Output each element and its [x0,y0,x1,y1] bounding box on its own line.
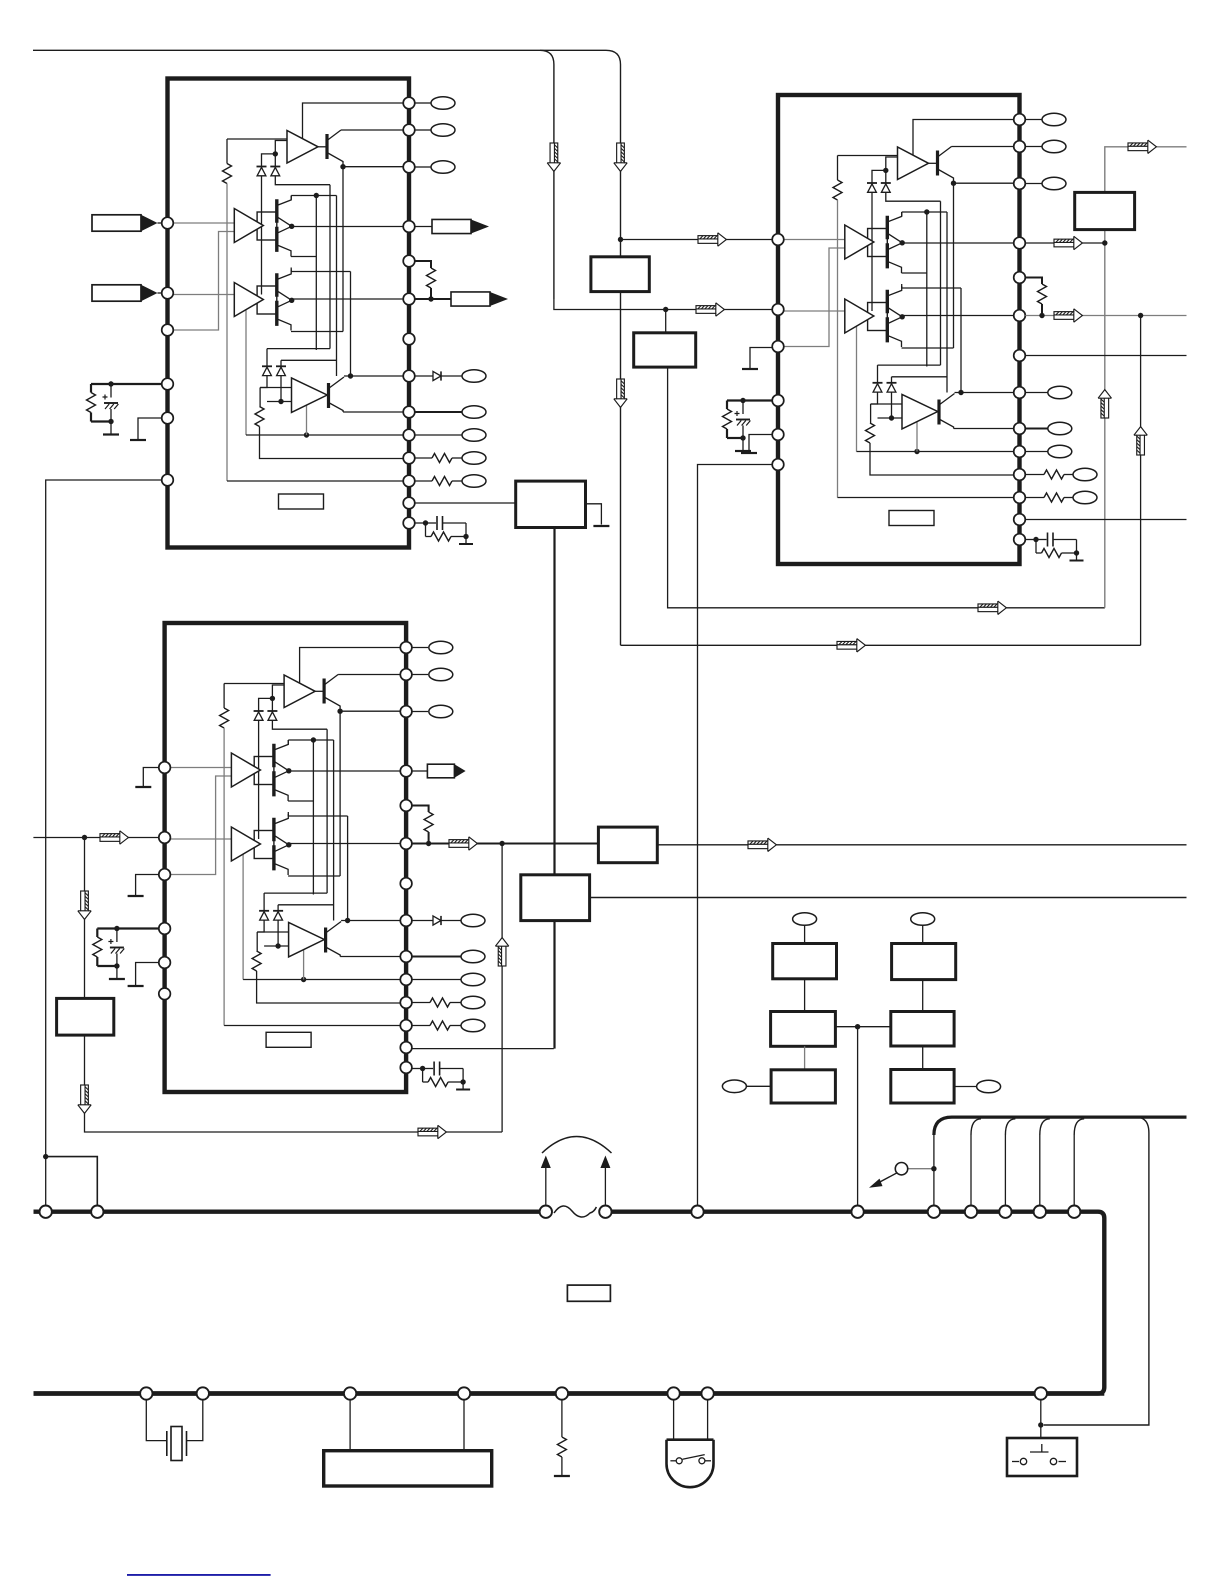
pin U3 R3 [400,706,412,718]
input flag U1 L2 [92,285,158,301]
terminal lug U3 R8 [461,914,485,927]
wire: D2 cathode to bus v3 [886,193,941,202]
wire: amp c lower input [845,321,857,323]
wire: mesh vertical v6 [960,288,962,393]
bus entry hook at 1074.2 [1074,1119,1084,1135]
transistor QU3A [315,675,340,712]
junction block group centre [855,1024,860,1029]
wire: long vertical to pin12 line [226,184,228,482]
pin U3 R11 [400,997,412,1009]
wire: crystal right lead [187,1400,203,1441]
transistor QU1A [318,130,343,167]
wire: W1 corner to U2 L2 [554,299,772,310]
wire: U1 R13 to block [415,502,516,504]
ground at U2 L5 [741,452,757,454]
wire: D3 anode riser [266,349,268,367]
bus node hook b [965,1206,977,1218]
floating label box [567,1285,610,1301]
junction QA emitter [340,164,345,169]
wire: U3 R1 to lug [412,647,428,649]
wire: mesh horizontal h4 [902,347,954,349]
pin U1 R13 [403,497,415,509]
signal arrow down to B11 [78,891,91,919]
block G-right-top [892,944,956,980]
RC network at U2 R14 [1026,533,1084,561]
signal arrow top right [1128,140,1156,153]
resistor at U1 R11 [432,454,452,463]
op-amp U2C [845,299,874,333]
wire: U1 R9 to lug [415,411,462,413]
wire: B11 bottom run [85,1035,503,1132]
wire: D1 cathode drop [871,193,873,312]
signal arrow up on gray riser [1098,390,1111,418]
RC cluster at U1 L4 [87,381,162,434]
pin U1 R4 [403,221,415,233]
op-amp U2A [898,147,929,180]
wire: W2 below B1 [620,292,622,646]
pin U1 R8 [403,370,415,382]
resistor at U1 R5 [427,268,436,288]
wire: QA emitter to pin3 [340,710,400,712]
pin U3 R6 [400,838,412,850]
wire: D2 cathode to bus v3 [272,721,327,730]
terminal lug U2 R12 [1073,491,1097,504]
wire: pin1 to amp U3a input top [300,648,401,684]
wire: pin10 line [246,434,403,436]
junction amp d lower input [278,399,283,404]
wire: mesh horizontal h3 [288,815,347,817]
pin U3 R8 [400,915,412,927]
wire: pin10 line [857,451,1014,453]
pin U3 L1 [159,762,171,774]
wire: pin10 line [243,979,400,981]
terminal lug U2 R1 [1042,113,1066,126]
wire: amp d lower input [264,945,289,947]
IC U2 package border [778,95,1020,564]
resistor RU12 (internal) [255,407,264,427]
pin U3 L3 [159,869,171,881]
wire: stage c output to pin6 [292,298,404,300]
op-amp U2B [845,225,874,259]
wire: pin L1 to amp b [173,222,234,224]
RC network at U3 R14 [412,1062,470,1090]
wire: lever to drop line [908,1168,934,1170]
wire: U1 R1 to lug [415,102,431,104]
wire: G-right-bot to lug [954,1086,977,1088]
signal arrow on W2 bottom run [837,639,865,652]
wire: pin L3 riser to amp b [784,248,845,347]
bottom bus [34,1391,1105,1395]
wire: input line to U3 L2 [33,837,158,839]
part number box U3 [266,1032,311,1047]
wire: Lm to Lb [804,1046,806,1070]
wire: clamp diode D2 riser to amp input [275,141,287,167]
wire: Rm to Rb [922,1046,924,1070]
pin U2 R6 [1014,310,1026,322]
wire: long vertical to pin12 line [223,728,225,1026]
junction stage U2c output [900,314,905,319]
terminal lug U1 R1 [431,97,455,110]
transistor pair U2b [887,212,902,273]
wire: U2 R5 elbow [1025,278,1042,285]
RC network at U1 R14 [415,516,473,544]
terminal lug U2 R2 [1042,140,1066,153]
output stage U2b bracket [868,229,888,257]
wire: B6 output long line [657,844,1186,846]
block B4 [521,875,590,921]
wire: bus to dome right [707,1400,709,1440]
wire: QD emitter to pin9 [954,428,1014,430]
junction lever tap [931,1166,936,1171]
pin U1 R2 [403,124,415,136]
lug right of block G-right-bot [977,1080,1001,1093]
transistor QU2A [929,147,954,184]
wire: drop to bus at 1005.4 [1004,1135,1006,1206]
bus node dome right [701,1387,713,1399]
pin U3 R5 [400,800,412,812]
resistor at U2 R12 [1044,493,1064,502]
junction amp d lower input [889,415,894,420]
resistor at U3 R12 [430,1021,450,1030]
wire: lug to G-left-bot [746,1085,771,1087]
resistor at U3 R5 [424,812,433,832]
wire: QD emitter to pin9 [340,956,400,958]
wire: to internal resistor 2 [259,388,261,407]
pin U2 L1 [772,234,784,246]
wire: mesh vertical v4 [946,212,948,393]
transistor pair U1c [277,270,292,331]
wire: U2 R6 long line [1025,315,1186,317]
wire: amp d upper input [257,931,288,933]
terminal lug U1 R10 [462,429,486,442]
wire: U1 R5 elbow [415,261,431,268]
terminal lug U3 R1 [429,641,453,654]
wire: amp U1a feedback resistor line [227,138,287,140]
IC U2 internals [772,95,1025,564]
ground at U2 L3 [742,368,758,370]
wire: drop to bus at 1039.8 [1039,1135,1041,1206]
ground at U1 L5 [130,439,146,441]
block B11 [57,998,114,1035]
wire: jumper arrow stem left [545,1165,547,1205]
junction U3 R6 [426,841,431,846]
wire: mesh vertical v6 [350,272,352,377]
bus node crystal right [197,1387,209,1399]
bus node crystal left [140,1387,152,1399]
wire: riser to U3 R6 line [501,844,503,1133]
wire: U3 R2 to lug [412,674,428,676]
wire: D4 top link [281,359,337,361]
pin U1 R6 [403,293,415,305]
wire: QD collector to pin8 [955,392,1014,394]
wire: U3 R9 to lug [412,956,461,958]
pin U1 R10 [403,429,415,441]
wire: D3 top link [267,348,330,350]
pin U2 R9 [1014,423,1026,435]
wire: clamp diode D2 riser to amp input [886,157,898,183]
output flag U1 R6 [451,292,508,306]
wire: D2 cathode to bus v3 [275,176,330,185]
diode DU13 [262,366,272,375]
wire: amp c lower input [231,849,243,851]
wire: D3 cathode [257,920,264,932]
pin U1 L2 [162,287,174,299]
junction amp d lower input [275,943,280,948]
pin U3 R4 [400,765,412,777]
transistor pair U3b [274,740,289,801]
wire: D4 anode riser [891,377,893,383]
part number box U1 [279,494,324,509]
bus node from U1 L6 [40,1206,52,1218]
pin U2 R3 [1014,178,1026,190]
signal arrow on bottom run [418,1125,446,1138]
pin U2 L4 [772,395,784,407]
wire: pin1 to amp U1a input top [303,103,404,139]
terminal lug U3 R11 [461,996,485,1009]
jumper wavy link [554,1206,596,1217]
bus node hook a [928,1206,940,1218]
signal arrow on B2 bottom run [978,601,1006,614]
wire: stage b output to pin4 [292,226,404,228]
pin U1 L6 [162,474,174,486]
wire: drop to bus at 971 [970,1135,972,1206]
wire: U3 R11 [412,1002,430,1004]
wire W2 from top rail [606,50,621,256]
wire: amp d lower input [267,401,292,403]
IC U3 package border [165,623,407,1092]
wire: gray riser to top right [1105,147,1187,608]
terminal lug U3 R12 [461,1019,485,1032]
pin U3 R14 [400,1062,412,1074]
wire: stage b output to pin4 [902,242,1014,244]
wire: U1 R10 to lug [415,434,462,436]
wire: U2 R12 [1025,497,1044,499]
wire: mesh vertical v3 [329,185,331,349]
transistor QU1D [327,377,344,412]
wire: U2 L5 to ground [749,435,772,454]
ground at B5 [593,525,609,527]
wire: pin12 line [224,1025,400,1027]
terminal lug U1 R8 [462,370,486,383]
dome switch contacts [670,1455,711,1464]
pin U1 L5 [162,412,174,424]
signal arrow down on W2 lower [614,379,627,407]
junction QD collector [345,918,350,923]
wire: U3 R5 elbow [412,806,429,813]
bus node push switch [1035,1387,1047,1399]
ground pulldown [554,1475,570,1477]
wire: QA emitter to pin3 [954,182,1014,184]
pin U1 L1 [162,217,174,229]
block G-right-bot [891,1070,954,1104]
wire: lug to block Lt [804,925,806,943]
diode at U1 R8 [433,371,441,380]
diode DU14 [276,366,286,375]
terminal lug U2 R9 [1048,422,1072,435]
pin U3 L6 [159,988,171,1000]
wire: mesh vertical v2 [245,306,247,436]
bus node B9 right [458,1387,470,1399]
wire: resistor to R6 line [428,832,430,844]
wire: QA emitter to pin3 [343,166,403,168]
wire: U1 R8 to diode [415,375,433,377]
pin U2 R2 [1014,141,1026,153]
wire: mesh vertical v5 [953,183,955,348]
junction stage U2b output [900,240,905,245]
wire: amp U3a feedback resistor line [224,683,284,685]
block B9 [324,1451,492,1486]
wire: U3 R4 to flag [412,770,428,772]
junction R4 on gray riser [1102,240,1107,245]
bus node pulldown [556,1387,568,1399]
junction QA emitter [337,709,342,714]
wire: U2 R8 to lug [1025,392,1048,394]
wire: bus to dome left [673,1400,675,1440]
IC U1 package border [168,79,410,548]
push switch contacts [1012,1444,1066,1465]
junction pin10 line [304,432,309,437]
output stage U2c bracket [868,303,888,331]
pin U2 R5 [1014,272,1026,284]
junction parallel branch [43,1154,48,1159]
wire: QA collector to pin2 [341,129,403,131]
block G-left-bot [771,1070,835,1103]
diode DU33 [259,911,269,920]
wire: bus to B9 right [463,1400,465,1451]
wire: clamp diode D1 riser [872,170,886,183]
wire: U3 R3 to lug [412,711,428,713]
pin U1 R7 [403,333,415,345]
lever circle [895,1163,907,1175]
wire: B2 bottom run [668,367,1105,608]
pin U2 R11 [1014,469,1026,481]
junction stage U1b output [289,224,294,229]
wire: D4 top link [892,376,948,378]
block G-left-top [773,944,837,979]
transistor QU2D [938,394,955,429]
ground at U3 L3 [128,895,144,897]
wire: mesh vertical v3 [326,729,328,893]
diode DU22 [881,183,891,192]
wire: resistor to ground [561,1457,563,1476]
wire: B4 output long line [590,897,1187,899]
signal arrow to U2 L1 [698,233,726,246]
op-amp U1D [292,378,328,412]
main bus upper [34,1212,1105,1394]
wire: D3 anode riser [263,893,265,911]
wire: pin12 line [227,480,403,482]
wire: pin L2 to amp c [170,838,231,840]
junction pin10 line [301,977,306,982]
wire: amp d lower input [878,417,903,419]
wire: U3 R6 to block B6 [412,843,599,845]
op-amp U3B [231,753,260,787]
wire: L2 tap down to B11 [84,838,86,999]
resistor RU21 (internal) [833,180,842,200]
lever arm with arrowhead [877,1173,897,1184]
block B3 [1075,192,1135,229]
wire: mesh vertical v2 [856,322,858,452]
bus terminal right of jumper [599,1206,611,1218]
wire: W2 bottom run [621,644,1141,646]
wire: resistor top lead [837,156,839,181]
pin U2 R13 [1014,514,1026,526]
terminal lug U2 R8 [1048,386,1072,399]
transistor pair U3c [274,814,289,875]
wire: mesh horizontal h4 [288,875,340,877]
wire: U3 R13 from B4 drop [412,1048,554,1050]
wire: amp c lower input [234,305,246,307]
terminal lug U1 R9 [462,406,486,419]
pin U2 L6 [772,459,784,471]
wire: bus to pulldown resistor [561,1400,563,1438]
bus node hook e [1068,1206,1080,1218]
remote sensor dome S1 [667,1440,714,1488]
wire: crystal left lead [146,1400,167,1441]
diode at U3 R8 [433,916,441,925]
bus node hook c [999,1206,1011,1218]
wire: amp b source line [288,800,313,802]
diode DU31 [254,711,264,720]
wire: U2 L6 long drop to bus [698,465,773,1206]
pin U2 L2 [772,304,784,316]
wire: Lm to Rm link [835,1026,890,1028]
wire: block group drop to bus [857,1027,859,1206]
signal arrow to U2 L2 [696,303,724,316]
output stage U3b bracket [254,757,274,785]
op-amp U1C [234,283,263,317]
wire: mesh vertical v3 [940,201,942,365]
wire: stage c output to pin6 [289,843,401,845]
wire: U1 L5 to ground [138,418,162,440]
junction stage U3b output [286,768,291,773]
wire: B5 down to B4 [553,528,555,875]
wire: to internal resistor 2 [256,932,258,951]
lug above block group left [793,913,817,926]
wire: stub above pin10 junction [306,406,308,436]
junction stage U3c output [286,842,291,847]
wire: B5 to ground [586,504,602,525]
mini bus collector [934,1117,1187,1135]
RC cluster at U2 L4 [723,398,773,451]
terminal lug U2 R3 [1042,177,1066,190]
output stage U1c bracket [257,286,277,314]
pin U1 L3 [162,324,174,336]
junction stage U1c output [289,298,294,303]
resistor at U3 R11 [430,998,450,1007]
input flag U1 L1 [92,215,158,231]
transistor pair U1b [277,196,292,257]
wire: pin L1 to amp b [170,767,231,769]
diode DU32 [267,711,277,720]
op-amp U3C [231,827,260,861]
wire: U1 R3 to lug [415,166,431,168]
pin U2 R8 [1014,387,1026,399]
wire: mesh horizontal h1 [902,211,947,213]
wire W1 from top rail [540,50,554,299]
wire: D4 cathode [280,376,282,402]
terminal lug U1 R3 [431,161,455,174]
wire: diode to lug [441,920,461,922]
wire: amp U2a feedback resistor line [838,155,898,157]
wire: pin12 line [838,497,1014,499]
terminal lug U3 R3 [429,705,453,718]
wire: D4 anode riser [280,360,282,366]
signal arrow on U2 R6 [1054,309,1082,322]
bus entry hook at 1039.8 [1040,1119,1050,1135]
signal arrow to U3 L2 [100,831,128,844]
wire: to pin11 line [260,427,404,459]
